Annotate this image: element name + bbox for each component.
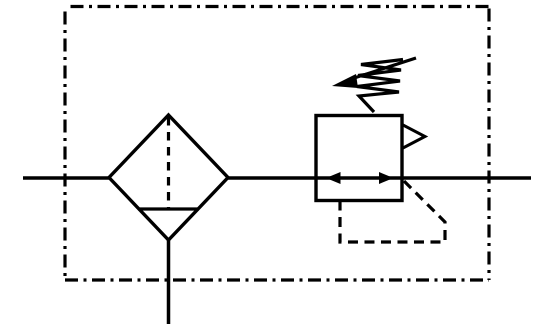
regulator R1: adjustability arrow (head) — [332, 74, 358, 88]
enclosure: dash-dot assembly boundary, right edge — [487, 7, 490, 281]
regulator R1: adjustability arrow (shaft) — [348, 58, 416, 80]
regulator R1: valve body square — [316, 116, 402, 201]
wire: pilot pressure feedback line (dashed) — [340, 181, 445, 242]
regulator R1: adjustment spring (zigzag) — [357, 60, 403, 113]
wire: inlet flow line segment (left, y=178) — [23, 176, 110, 180]
filter F1: diamond body — [109, 115, 228, 240]
wire: condensate drain line — [167, 239, 171, 324]
enclosure: dash-dot assembly boundary, bottom edge — [65, 278, 489, 281]
regulator R1: flow path arrowhead (right, pointing right) — [379, 172, 394, 184]
filter F1: filter element (dashed centerline) — [167, 117, 170, 208]
enclosure: dash-dot assembly boundary, top edge — [65, 5, 489, 8]
enclosure: dash-dot assembly boundary, left edge — [63, 7, 66, 281]
wire: outlet flow line segment (filter to regulator to outlet, y=178) — [227, 176, 531, 180]
filter F1: water separator chord (bottom triangle) — [138, 207, 199, 210]
regulator R1: relief vent triangle (right side) — [402, 125, 425, 149]
regulator R1: flow path arrowhead (left, pointing left) — [326, 172, 341, 184]
